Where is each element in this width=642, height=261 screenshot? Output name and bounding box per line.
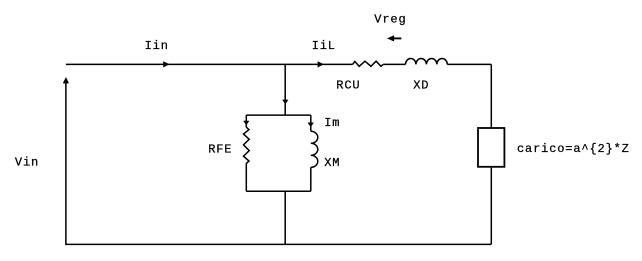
inductor XM coil <box>311 131 318 167</box>
wire left branch stub bottom <box>245 163 247 191</box>
svg-text:RFE: RFE <box>208 143 232 157</box>
svg-text:RCU: RCU <box>336 79 360 93</box>
svg-text:carico=a^{2}*Z: carico=a^{2}*Z <box>517 142 630 156</box>
wire center branch upper <box>284 64 286 115</box>
wire center branch lower <box>284 191 286 244</box>
wire top horizontal between RCU and XD <box>383 63 405 65</box>
svg-text:Iin: Iin <box>145 39 169 53</box>
wire Vin vertical line <box>65 81 67 245</box>
load resistor carico rectangle <box>478 128 504 167</box>
arrow Im down arrowhead <box>282 100 288 105</box>
svg-text:XD: XD <box>413 79 429 93</box>
inductor XD coil <box>406 58 448 64</box>
wire right vertical lower <box>490 167 492 245</box>
arrow Vreg left arrow with tail <box>387 35 394 41</box>
wire right branch stub top <box>310 115 312 131</box>
arrow Vin up arrowhead <box>63 77 69 83</box>
arrow Iin right arrowhead <box>163 61 169 67</box>
wire bottom horizontal <box>65 243 491 245</box>
svg-text:XM: XM <box>324 156 340 170</box>
wire top horizontal left segment <box>66 63 353 65</box>
arrow RFE branch down arrowhead <box>243 121 249 125</box>
wire right branch stub bottom <box>310 167 312 191</box>
svg-text:Im: Im <box>324 116 340 130</box>
svg-text:IiL: IiL <box>312 39 336 53</box>
arrow IiL right arrowhead <box>318 61 324 67</box>
wire left branch stub top <box>245 115 247 127</box>
arrow XM branch down arrowhead <box>308 123 314 128</box>
resistor RCU zigzag <box>353 61 384 66</box>
wire parallel bottom bar <box>246 190 311 192</box>
resistor RFE zigzag <box>244 127 250 163</box>
svg-text:Vreg: Vreg <box>374 13 406 27</box>
wire parallel top bar <box>246 114 311 116</box>
wire right vertical upper <box>490 64 492 128</box>
svg-text:Vin: Vin <box>15 156 39 170</box>
wire top horizontal right segment <box>447 63 491 65</box>
